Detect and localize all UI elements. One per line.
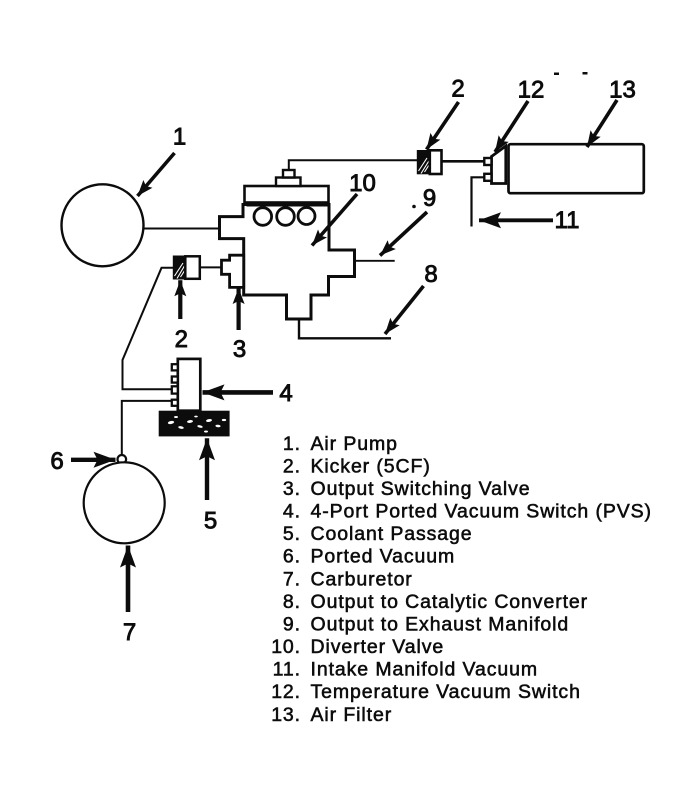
svg-text:5: 5 [204,508,217,535]
air filter (13) [509,144,644,193]
svg-text:7.: 7. [283,568,301,590]
output switching valve (3) [222,255,244,287]
label arrow 13 [587,100,617,147]
wire output to exhaust manifold (9) [355,260,395,262]
svg-text:13: 13 [609,76,636,103]
svg-text:Air Filter: Air Filter [311,704,393,726]
svg-text:1: 1 [173,124,186,151]
legend list [271,433,652,726]
label arrow 8 [385,286,424,334]
wire kicker 2 (left) to output switching valve [200,266,222,268]
svg-text:Diverter Valve: Diverter Valve [311,636,445,658]
svg-text:Output to Exhaust Manifold: Output to Exhaust Manifold [311,613,570,635]
svg-text:Coolant Passage: Coolant Passage [311,523,473,545]
svg-text:Air Pump: Air Pump [311,433,398,455]
label arrow 1 [138,153,175,196]
scan specks [412,72,587,208]
svg-text:13.: 13. [271,704,301,726]
kicker 2 (left) [173,256,200,280]
coolant passage (5) [159,411,230,437]
svg-text:12: 12 [518,77,545,104]
callout digits [50,76,636,647]
svg-text:10: 10 [349,170,376,197]
wire PVS port 4 to ported vacuum [122,401,173,456]
svg-text:2.: 2. [283,455,301,477]
svg-text:6: 6 [50,448,63,475]
svg-text:2: 2 [175,326,188,353]
svg-text:Output to Catalytic Converter: Output to Catalytic Converter [311,591,589,613]
wire kicker 2 (top) to temperature vacuum switch [442,160,485,163]
4-port ported vacuum switch (4) [178,359,201,411]
label arrow 5 [205,438,209,500]
label arrow 6 [71,458,116,462]
svg-text:Intake Manifold Vacuum: Intake Manifold Vacuum [311,659,539,681]
svg-text:4: 4 [279,380,292,407]
svg-text:2: 2 [451,76,464,103]
label arrow 4 [203,390,274,395]
svg-text:Temperature Vacuum Switch: Temperature Vacuum Switch [311,681,581,703]
svg-text:4-Port Ported Vacuum Switch (P: 4-Port Ported Vacuum Switch (PVS) [311,501,652,523]
air pump (1) circle [62,184,144,266]
svg-text:12.: 12. [271,681,301,703]
diverter valve circles [254,208,272,226]
wire TVS to intake manifold vacuum [472,177,485,226]
svg-text:11.: 11. [273,659,301,681]
svg-text:5.: 5. [283,523,301,545]
ported vacuum (6) nipple [118,455,127,464]
svg-text:Ported Vacuum: Ported Vacuum [311,546,456,568]
svg-text:4.: 4. [283,501,301,523]
svg-text:3.: 3. [283,478,301,500]
wire diverter cap to kicker 2 (top) [289,160,417,170]
label arrow 2 (top) [427,102,459,150]
svg-text:11: 11 [555,207,580,234]
svg-text:3: 3 [233,336,246,363]
wire output to catalytic converter (8) [299,319,391,338]
wire air pump to diverter valve [142,228,220,230]
label arrow 12 [495,101,528,152]
svg-text:8.: 8. [283,591,301,613]
carburetor (7) circle [84,462,165,543]
svg-text:8: 8 [424,261,437,288]
kicker 2 (top) [417,150,442,174]
svg-text:9: 9 [423,185,436,212]
svg-text:10.: 10. [271,636,301,658]
label arrow 2 (left kicker) [178,280,182,319]
label arrow 10 [312,194,357,246]
svg-text:7: 7 [123,619,136,646]
label arrow 3 [237,288,241,330]
svg-text:Carburetor: Carburetor [311,568,413,590]
svg-text:Kicker (5CF): Kicker (5CF) [311,455,431,477]
diverter valve cap [276,178,301,187]
label arrow 9 [380,212,427,256]
label arrow 11 (intake manifold vacuum) [479,218,553,222]
diverter valve (10) body [220,205,355,320]
svg-text:6.: 6. [283,546,301,568]
diverter valve top bar [245,186,329,203]
temperature vacuum switch (12) [492,146,506,184]
svg-text:Output Switching Valve: Output Switching Valve [311,478,531,500]
wire kicker 2 (left) to PVS port 3 [123,268,174,390]
svg-text:9.: 9. [283,613,301,635]
label arrow 7 [126,546,131,613]
svg-text:1.: 1. [283,433,301,455]
